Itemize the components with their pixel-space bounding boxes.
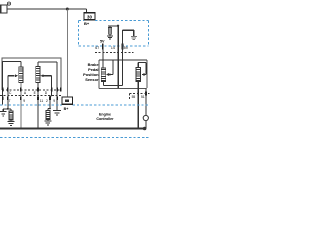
wire battery feed horizontal [7,8,87,10]
wire pin67 to pot3 top [102,49,104,68]
wire lamp drop from box [145,89,147,116]
wire pot4 top loop [138,63,146,75]
wire left edge drop [2,61,4,104]
svg-text:14: 14 [111,46,115,50]
battery terminal symbol [7,2,10,5]
wire pot2 bottom to bus [37,83,39,129]
svg-text:9: 9 [53,99,55,103]
potentiometer R3 wiper [106,60,113,76]
svg-text:2: 2 [46,99,48,103]
svg-text:B+: B+ [64,107,69,111]
lamp solenoid symbol [143,115,148,128]
ground top right [131,37,137,40]
node junction dot [66,8,69,11]
pin 59 tick [122,44,124,50]
node bus end dot [143,127,147,131]
svg-text:51: 51 [141,95,145,99]
pin ticks sensor left [3,88,61,92]
resistor controller r1 [9,111,13,122]
svg-text:E: E [34,91,37,95]
ground bus bar [0,128,145,130]
resistor 5V regulator [108,26,112,36]
wire pin14 down [117,26,119,89]
sensor connector dashed line left [2,89,61,91]
wire pin2 jog [48,109,50,111]
svg-text:59: 59 [124,46,128,50]
wire gnd branch top [123,30,134,36]
wire battery drop to B+ box [66,10,68,98]
svg-text:A: A [24,91,27,95]
wire into fuse [86,9,88,13]
potentiometer R4 wiper [141,73,146,76]
B+ connector box [62,97,73,104]
node 5v stub junction [117,25,119,27]
ground controller g1 [0,112,6,116]
wire pot2 top loop [38,62,57,110]
svg-text:30: 30 [87,14,92,19]
ground 5V regulator [107,36,113,39]
wire pot1 top bus [3,60,22,62]
wire pot1 bottom to bus [20,82,22,128]
pin tick pot4 wire [137,92,139,96]
svg-text:C: C [9,91,12,95]
wire 5V stub [108,25,118,27]
potentiometer R2 wiper [41,74,52,108]
svg-text:Sensor: Sensor [85,77,99,82]
wire pin59 down to pot3 bottom [122,30,124,85]
ground controller g2 [8,122,15,126]
wire pin7 jog [3,105,11,111]
potentiometer R1 element [19,61,23,82]
connector dashed line right harness [95,52,134,54]
harness dashed line left [0,95,61,97]
svg-text:67: 67 [95,46,99,50]
svg-text:5V: 5V [100,40,105,44]
ground controller g4 [53,110,61,115]
svg-text:7: 7 [9,99,11,103]
node pin2 junction [49,108,51,110]
svg-text:9: 9 [23,99,25,103]
svg-text:D: D [45,91,48,95]
engine controller dashed top edge [0,104,150,106]
potentiometer R3 element [101,68,106,82]
wire pot3 bottom return [104,82,123,86]
brake pedal position sensor right box [99,60,147,89]
pin 67 tick [102,44,104,50]
resistor controller r2 [46,111,50,122]
wire pot4 bottom long drop [137,82,139,129]
pin ticks controller left [3,96,58,100]
connector dashed box right bottom [130,93,150,100]
potentiometer R1 wiper [8,74,18,105]
svg-text:Engine: Engine [99,113,111,117]
pin tick lamp wire [145,92,147,96]
potentiometer R4 element [136,68,141,82]
svg-text:Controller: Controller [96,117,114,121]
pin 14 tick [117,44,119,50]
box top edge dark [99,59,147,61]
fuse 30 box [84,13,95,20]
potentiometer R2 element [36,62,40,83]
battery connector box [1,5,7,13]
svg-text:B+: B+ [84,21,90,26]
node pin7 junction [7,108,9,110]
ground controller g3 [44,121,51,125]
engine controller dashed bottom edge [0,137,150,139]
svg-text:55: 55 [132,95,136,99]
controller top dashed box [79,21,149,47]
svg-text:11: 11 [40,99,44,103]
brake pedal position sensor left box [2,58,61,90]
